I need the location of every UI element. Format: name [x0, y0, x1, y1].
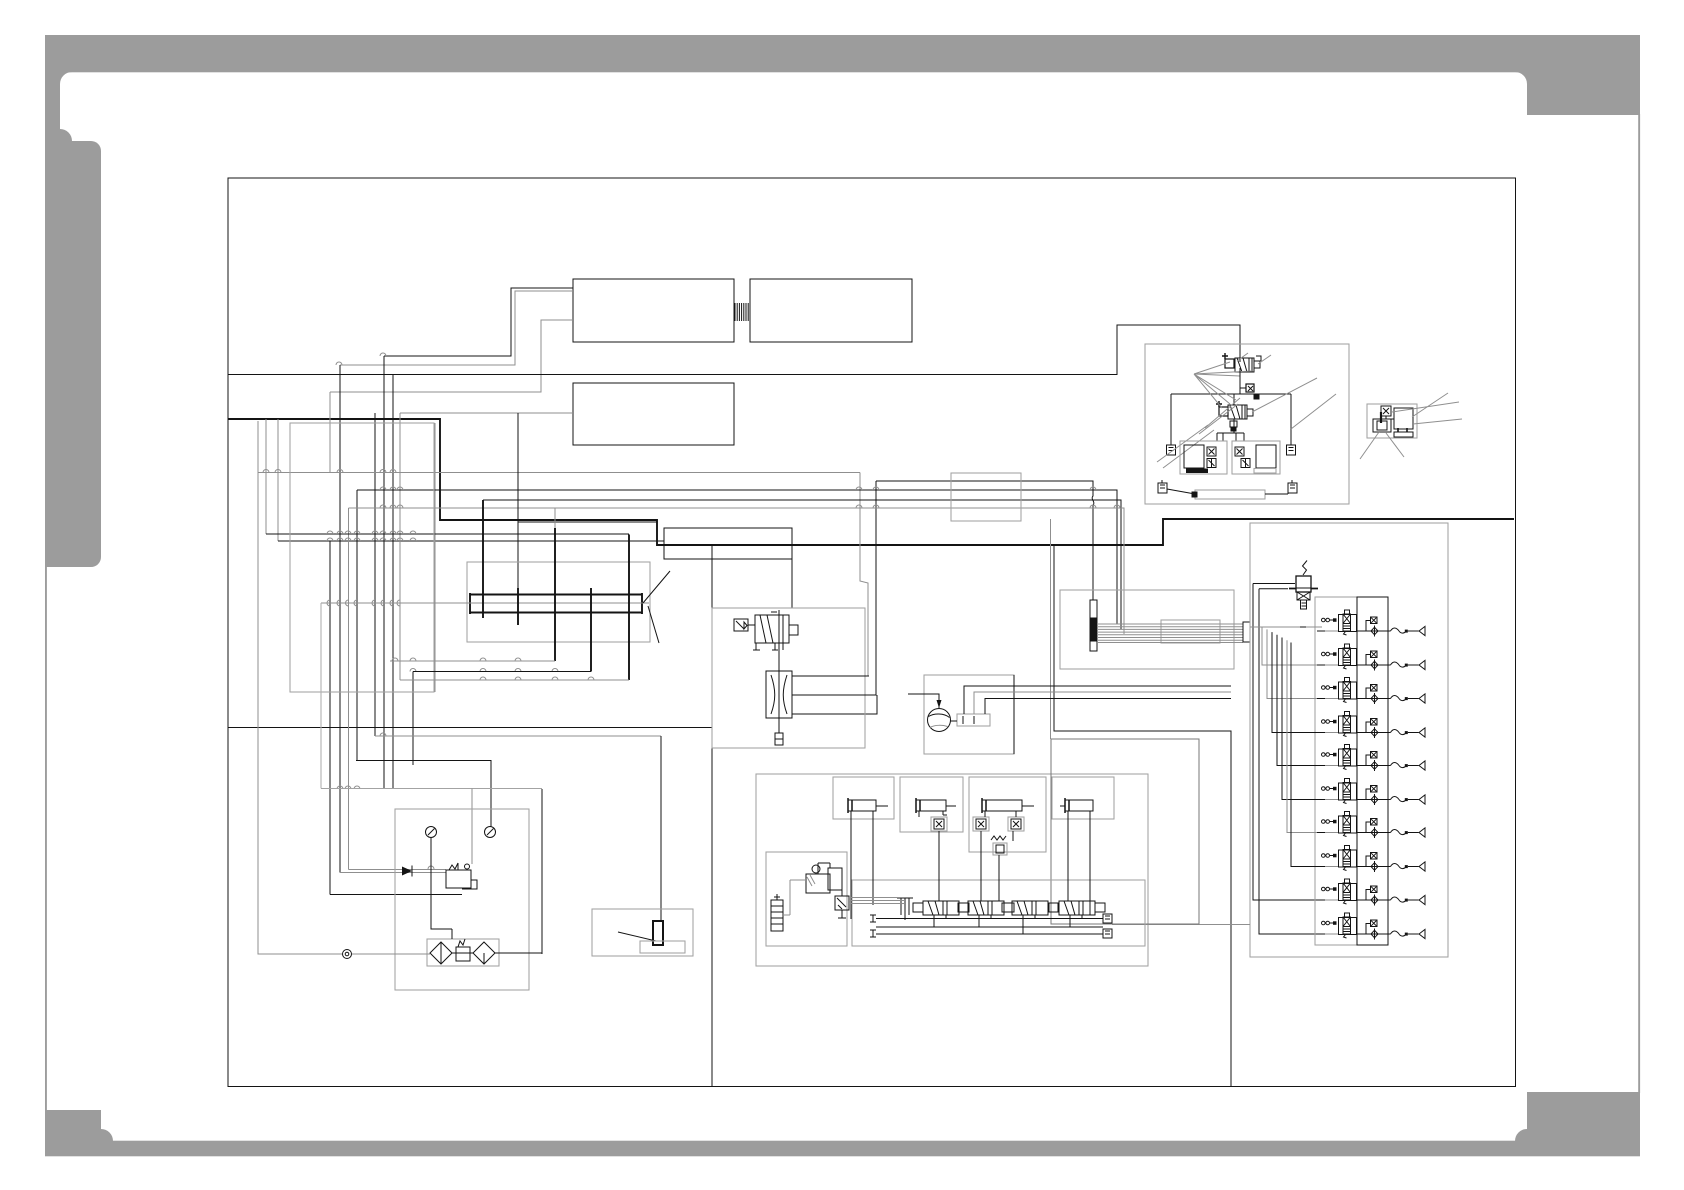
wire: section boundary to pump block	[1054, 545, 1231, 1086]
wire: light pilot drop v321	[320, 603, 322, 788]
wire: cluster lower leaders	[1157, 425, 1214, 468]
wire: cluster right drop	[1290, 394, 1292, 445]
wire: box A to bundle (gray)	[340, 291, 573, 365]
wire: cluster left drop	[1170, 394, 1172, 445]
wire: h481 center to harness	[792, 481, 876, 695]
wire: venturi top line	[792, 675, 869, 677]
wire: leader fan to SV2	[1194, 374, 1336, 434]
node: valve manifold lower	[852, 880, 1145, 946]
node: solenoid cluster enclosure	[1145, 344, 1349, 504]
valve bank station 8	[1317, 846, 1425, 873]
wire: margin tap v278	[277, 419, 279, 541]
wire: cyl3 drops	[981, 811, 1016, 901]
wire: long pilot line to solenoid cluster	[228, 325, 1240, 375]
wire: bank fan drop row4	[1272, 632, 1322, 732]
wire: bus line 2	[876, 926, 1103, 928]
valve bank station 4	[1317, 712, 1425, 739]
component: gauge G1	[426, 827, 437, 870]
wire: bundle v357	[356, 490, 358, 761]
wire: filter inlet gray	[352, 953, 430, 955]
wire: bundle v339	[339, 365, 341, 873]
node: cab monitor	[1394, 408, 1413, 429]
component: small marks under SV2	[1230, 421, 1237, 431]
node: travel pilot sub-box L	[1180, 441, 1227, 474]
wire: parallel pilot drop x1050	[1050, 519, 1052, 739]
wire: section divider horizontal lower-left	[228, 727, 712, 729]
valve bank station 10	[1317, 913, 1425, 940]
component: cab valve lower	[1373, 412, 1391, 432]
node: cyl box 1	[833, 777, 894, 819]
valve bank station 9	[1317, 879, 1425, 906]
wire: h671	[413, 671, 591, 673]
component: cylinder 1	[848, 798, 888, 813]
wire: pump suction	[908, 694, 939, 708]
component: 4/3 pilot valve V1	[734, 610, 798, 650]
node: ECU box A	[573, 279, 734, 342]
wire: bundle v330 upper	[329, 392, 331, 472]
wire: h869 pair to regulator	[340, 870, 446, 873]
wire: junction box drop	[791, 559, 793, 608]
wire: cab leaders	[1360, 393, 1462, 459]
component: accumulator	[771, 894, 783, 931]
component: bus right port 2	[1103, 929, 1112, 938]
component: filter block	[427, 939, 499, 966]
node: manifold gray box	[290, 423, 434, 692]
component: spool bar	[470, 593, 642, 614]
wire: relief drop v1253	[1253, 584, 1322, 901]
wire: h534	[266, 533, 629, 535]
enclosure: schematic outer border	[228, 178, 1516, 1087]
component: gauge G2	[485, 827, 496, 838]
component: port block left	[1158, 480, 1167, 493]
node: tank port	[343, 950, 352, 959]
component: control valve CV2	[958, 901, 1014, 915]
wire: v472 to regulator	[471, 789, 473, 865]
wire: box A to bundle (black)	[384, 288, 573, 356]
component: charge assembly	[806, 865, 842, 893]
wire: bundle v392	[392, 375, 394, 790]
node: cyl box 4	[1052, 777, 1114, 819]
node: small gray box mid	[951, 473, 1021, 521]
node: spool assembly enclosure	[467, 562, 650, 642]
wire: box A lower to bundle (gray)	[330, 320, 573, 392]
component: harness connector bar	[1090, 600, 1097, 651]
wire: pump control line 1	[964, 686, 1231, 714]
component: spring box3	[991, 836, 1007, 855]
component: bus right port 1	[1103, 914, 1112, 923]
wire: bank fan drop row8	[1291, 643, 1322, 867]
wire: h661	[390, 660, 555, 662]
wire: bank fan drop row5	[1277, 635, 1322, 766]
node: cab cluster enclosure	[1367, 404, 1417, 438]
component: cylinder 4	[1060, 798, 1093, 813]
node: pilot valve enclosure	[712, 608, 865, 748]
node: pilot harness enclosure	[1060, 590, 1234, 669]
component: cab bar	[1394, 428, 1413, 437]
component: check valve box3 L	[973, 817, 989, 831]
wire: h508	[349, 508, 1125, 634]
valve bank station 1	[1317, 610, 1425, 637]
wire: bank row feed 1	[1250, 626, 1322, 628]
wire: v518 from box C line	[517, 413, 519, 625]
wire: cluster cross line	[1171, 388, 1291, 405]
wire: spool tick v555	[554, 528, 556, 661]
node: ribbon connector between A and B	[735, 303, 748, 321]
component: drain port right	[1287, 445, 1296, 455]
component: venturi shuttle	[766, 671, 792, 718]
component: bus left ticks	[870, 915, 876, 937]
wire: v661 to cab valve	[660, 736, 662, 921]
wire: main pilot supply path across middle	[228, 419, 1514, 545]
node: control cluster enclosure	[756, 774, 1148, 966]
wire: bank fan drop row6	[1282, 638, 1322, 800]
wire: bundle v400	[399, 413, 401, 680]
component: orifice check	[1246, 384, 1259, 399]
wire: harness feed line	[375, 735, 661, 737]
wire: bank fan drop row7	[1287, 640, 1322, 832]
component: control valve CV4	[1049, 901, 1105, 915]
component: bank inlet connector	[1243, 622, 1250, 642]
node: travel line box	[1051, 739, 1199, 924]
wire: pump control line 2	[974, 692, 1231, 714]
wire: relief drop v1258	[1259, 589, 1322, 934]
component: relief valve RV1	[1289, 561, 1318, 610]
component: drain port left	[1167, 445, 1176, 455]
wire: h522	[518, 521, 657, 523]
component: flow arrow	[402, 867, 412, 876]
wire: spool tick v591	[590, 588, 592, 672]
wire: relief valve line lower	[1259, 588, 1288, 590]
component: solenoid valve SV1	[1222, 353, 1261, 372]
wire: bundle v330 lower	[329, 541, 331, 895]
wire: bus return from control block	[1112, 924, 1250, 926]
node: ECU box B	[750, 279, 912, 342]
node: travel pilot sub-box R	[1232, 441, 1280, 474]
wire: h760 to gauge2	[356, 761, 491, 827]
node: cyl box 3	[969, 777, 1046, 852]
component: cylinder 2	[916, 798, 956, 813]
wire: leader fan to SV1	[1194, 353, 1271, 376]
component: cab solenoid top	[1381, 406, 1394, 419]
wire: spool pilot gray line	[321, 602, 649, 604]
valve bank station 2	[1317, 644, 1425, 671]
component: spool lever	[643, 571, 670, 643]
wire: bundle v348	[348, 508, 350, 870]
wire: h500	[483, 500, 1121, 629]
wire: venturi line y714	[792, 695, 877, 714]
wire: spool tick v555 upper	[554, 508, 556, 528]
component: pilot valve small	[835, 890, 849, 918]
wire: h541	[278, 540, 664, 542]
node: bank body black column	[1357, 597, 1388, 945]
component: tank marker	[897, 898, 913, 920]
wire: h894 to regulator drain	[330, 894, 462, 896]
node: pump enclosure	[924, 675, 1014, 754]
component: check valve box2	[931, 817, 947, 831]
node: cab shutoff box	[592, 909, 693, 956]
wire: bus line 3	[876, 933, 1103, 935]
component: pump P1	[928, 709, 951, 732]
wire: spool tick v629	[628, 535, 630, 681]
valve bank station 5	[1317, 745, 1425, 772]
wire: SV1 to orifice	[1240, 368, 1246, 388]
wire: bundle v375	[374, 413, 376, 736]
component: check valve box3 R	[1008, 817, 1024, 831]
wire: box C to bundle (gray)	[400, 412, 573, 414]
wire: filter to riser	[452, 952, 542, 954]
wire: margin tap v266	[265, 419, 267, 534]
wire: h472 to center valve	[258, 472, 860, 474]
wire: spool tick v518	[517, 588, 519, 625]
node: bank body gray column	[1315, 597, 1357, 945]
component: control valve CV3	[1002, 901, 1058, 915]
component: travel crossover bar	[1167, 489, 1288, 499]
node: pilot supply sub-box	[766, 852, 847, 946]
node: controller box C	[573, 383, 734, 445]
valve bank station 7	[1317, 812, 1425, 839]
component: solenoid valve SV2	[1216, 401, 1253, 419]
component: pump inlet arrow	[937, 700, 942, 708]
node: harness sleeve	[1161, 620, 1220, 643]
junction: bundle crossing nubs	[263, 353, 1120, 869]
wire: bus line 1	[876, 918, 1103, 920]
wire: section divider vertical center	[711, 545, 713, 1086]
valve bank station 6	[1317, 779, 1425, 806]
node: cyl box 2	[900, 777, 963, 832]
component: port block right	[1288, 480, 1297, 493]
wire: bundle v413	[412, 672, 414, 766]
wire: cyl1 drops	[851, 811, 873, 919]
wire: cyl4 drops	[1068, 811, 1090, 915]
component: control valve CV1	[913, 901, 969, 915]
wire: valve to bus ticks	[934, 915, 1082, 934]
wire: h789	[321, 788, 542, 790]
wire: h490	[357, 490, 1117, 624]
wire: pilot supply lines	[849, 898, 905, 904]
wire: SV2 down	[1217, 419, 1244, 441]
wire: venturi mid line	[792, 694, 873, 696]
component: pressure regulator R1	[446, 863, 477, 889]
wire: pump right border black	[1013, 675, 1015, 754]
wire: v542 down to filter	[541, 789, 543, 954]
wire: relief valve line upper	[1253, 583, 1295, 585]
node: conditioning unit enclosure	[395, 809, 529, 990]
node: junction box mid	[664, 528, 792, 559]
wire: harness pilot lines	[1097, 624, 1243, 643]
wire: charge line up	[818, 863, 830, 874]
wire: gauge1 internal drop	[431, 838, 452, 939]
wire: bundle v435 gray	[434, 423, 436, 692]
component: regulator block on pump	[950, 714, 990, 726]
wire: cyl2 drops	[919, 811, 947, 901]
component: cylinder 3	[982, 798, 1034, 813]
component: shutoff plug	[618, 921, 685, 953]
valve bank station 3	[1317, 678, 1425, 705]
component: plug under V1	[775, 733, 783, 745]
wire: tank return far left	[258, 421, 342, 954]
wire: bundle v383	[383, 356, 385, 789]
wire: pump control line 3	[985, 699, 1231, 715]
wire: h680	[400, 679, 629, 681]
node: valve bank enclosure	[1250, 523, 1448, 957]
wire: bank fan drop row2	[1262, 627, 1322, 665]
wire: spool tick v483	[482, 500, 484, 618]
wire: accumulator link	[783, 880, 806, 915]
wire: bank fan drop row3	[1267, 629, 1322, 698]
wire: valve V1 down line	[778, 643, 780, 733]
